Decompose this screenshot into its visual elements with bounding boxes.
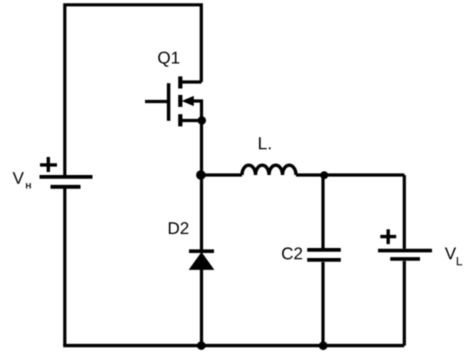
transistor Q1 (n-channel MOSFET) [145,76,206,126]
wire: D2 anode to bottom rail [200,268,203,346]
label V_L subscript L [457,257,462,265]
Q1 source lead [181,119,202,122]
Q1 channel segments [178,76,182,126]
wire: inductor to V_L [296,173,404,176]
wire: V_H positive terminal up, across top, down to Q1 drain [65,5,202,176]
label V_L [445,248,456,260]
label D2 [169,222,188,234]
Q1 body lead [191,101,202,121]
junction dot D2 bottom [197,341,206,350]
battery V_H plates [40,177,93,187]
inductor L [242,165,296,175]
plus sign at V_L [380,229,396,244]
Q1 gate lead [145,100,168,103]
battery V_L plates [378,251,432,259]
wire: top rail down to battery V_L [403,175,406,249]
capacitor C2 plates [307,250,341,260]
wire: switch node down to diode D2 [200,175,203,250]
Q1 drain lead [181,80,202,83]
junction dot C2 bottom [319,341,328,350]
wire: bottom ground rail [63,344,404,347]
diode D2 triangle [190,253,214,270]
label Q1 [158,52,179,67]
label C2 [282,247,302,259]
Q1 gate bar [167,83,171,121]
label V_H [13,172,24,184]
wire: V_L negative terminal to bottom rail [403,261,406,346]
wire: C2 to bottom rail [321,262,324,346]
Q1 body arrow [183,97,193,106]
wire: switch node to inductor [202,173,243,176]
wire: V_H negative terminal down to bottom rail [63,188,66,346]
label L. [259,137,271,149]
label V_H subscript H [26,183,31,189]
switch node junction dot [196,170,206,180]
wire: Q1 source down to switch node [200,121,203,176]
junction dot at C2 top node [320,171,328,179]
wire: node down to capacitor C2 [321,175,324,248]
diode D2 cathode bar [189,249,214,253]
plus sign at V_H [40,157,57,172]
Q1 source-body junction dot [198,116,206,124]
